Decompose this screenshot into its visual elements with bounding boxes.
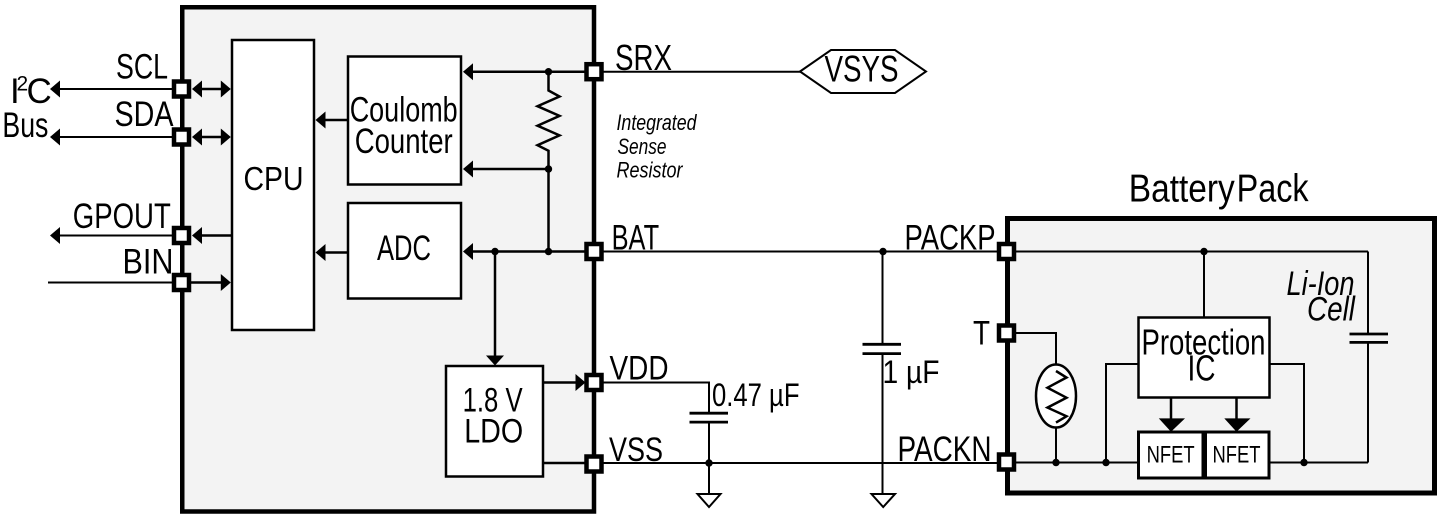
- svg-text:IC: IC: [1188, 348, 1216, 389]
- wire SDA external: [58, 136, 174, 138]
- pin PACKN: [999, 455, 1014, 470]
- net flag VSYS: [800, 50, 926, 93]
- node junction 1uF: [879, 248, 886, 255]
- resistor R-sense zigzag: [538, 72, 560, 169]
- svg-text:CPU: CPU: [244, 160, 304, 197]
- wire thermistor to PACKN: [1055, 427, 1057, 463]
- capacitor C2 0.47uF: [690, 412, 729, 415]
- NFET Q1 block: [1139, 432, 1204, 478]
- pin VSS: [587, 457, 602, 472]
- wire SDA internal bidirectional: [198, 136, 224, 139]
- Coulomb Counter block: [348, 57, 461, 185]
- wire ADC to CPU: [325, 251, 347, 254]
- svg-text:Resistor: Resistor: [617, 158, 684, 183]
- svg-text:VSYS: VSYS: [825, 49, 899, 90]
- wire Coulomb Counter to CPU: [325, 119, 347, 122]
- pin BAT: [587, 244, 602, 259]
- svg-text:PACKN: PACKN: [898, 430, 992, 469]
- pin PACKP: [999, 244, 1014, 259]
- wire BAT pin to ADC: [472, 250, 586, 253]
- capacitor C1 1uF: [882, 252, 884, 344]
- svg-text:ADC: ADC: [377, 229, 431, 268]
- svg-text:SDA: SDA: [115, 95, 175, 134]
- wire Protection IC right down: [1270, 364, 1304, 463]
- svg-text:Cell: Cell: [1307, 290, 1356, 328]
- node junction VSS/cap: [705, 459, 712, 466]
- wire Protection IC left to PACKN: [1106, 364, 1138, 463]
- wire VSS to PACKN: [602, 462, 1000, 464]
- 1.8V LDO block: [446, 366, 543, 477]
- NFET Q2 block: [1206, 432, 1270, 478]
- svg-text:PACKP: PACKP: [905, 219, 996, 258]
- wire LDO to VDD pin: [544, 381, 578, 384]
- wire down to Protection IC: [1203, 252, 1205, 318]
- wire GPOUT internal: [198, 234, 232, 237]
- svg-text:Battery: Battery: [1129, 167, 1235, 210]
- svg-text:Integrated: Integrated: [617, 110, 698, 135]
- wire T pin to thermistor: [1013, 333, 1056, 365]
- wire LDO to VSS pin: [544, 462, 586, 465]
- node junction on SRX wire: [545, 68, 552, 75]
- wire BIN internal: [191, 281, 224, 284]
- wire SRX to VSYS: [602, 71, 801, 73]
- wire VDD to cap: [602, 383, 709, 413]
- wire SCL internal bidirectional: [198, 88, 224, 91]
- pin SCL: [174, 82, 189, 97]
- pin T: [999, 326, 1014, 341]
- svg-text:GPOUT: GPOUT: [73, 197, 171, 236]
- arrow Protection IC to NFET Q1: [1170, 399, 1173, 420]
- fuel-gauge IC outline U1: [182, 7, 594, 511]
- node junction to LDO branch: [491, 248, 498, 255]
- svg-text:1 µF: 1 µF: [883, 354, 940, 390]
- pin GPOUT: [174, 228, 189, 243]
- wire BIN external: [48, 282, 174, 284]
- pin SRX: [587, 64, 602, 79]
- wire PACKN internal: [1013, 462, 1138, 464]
- node junction below resistor: [545, 165, 552, 172]
- svg-text:0.47 µF: 0.47 µF: [712, 377, 800, 413]
- wire SRX pin to Coulomb Counter top: [472, 70, 586, 73]
- svg-text:Bus: Bus: [2, 106, 48, 145]
- svg-text:LDO: LDO: [464, 412, 523, 450]
- battery pack outline: [1008, 219, 1435, 494]
- svg-text:Counter: Counter: [355, 122, 453, 161]
- svg-text:BIN: BIN: [123, 243, 174, 282]
- wire resistor bottom to Coulomb Counter: [472, 168, 549, 171]
- wire SCL external: [58, 88, 174, 90]
- svg-text:NFET: NFET: [1147, 441, 1195, 468]
- ground below 0.47uF: [698, 494, 721, 507]
- wire PACKP internal: [1013, 251, 1368, 253]
- wire resistor node down to BAT wire: [547, 169, 550, 252]
- Li-Ion cell B1: [1367, 252, 1369, 334]
- ground below 1uF: [872, 494, 896, 507]
- svg-text:Pack: Pack: [1237, 167, 1309, 210]
- pin VDD: [587, 375, 602, 390]
- CPU block: [232, 40, 314, 330]
- wire GPOUT external: [58, 235, 174, 237]
- node junction protection ic top: [1200, 248, 1207, 255]
- thermistor RT1: [1036, 365, 1076, 428]
- svg-text:SCL: SCL: [116, 48, 168, 87]
- svg-text:T: T: [973, 315, 990, 353]
- wire down to LDO: [494, 252, 497, 357]
- pin BIN: [174, 275, 189, 290]
- svg-text:Sense: Sense: [618, 134, 667, 159]
- Protection IC block: [1139, 318, 1270, 398]
- wire BAT to PACKP: [602, 251, 1000, 253]
- pin SDA: [174, 130, 189, 145]
- ADC block: [348, 203, 461, 299]
- svg-text:NFET: NFET: [1213, 441, 1261, 468]
- arrow Protection IC to NFET Q2: [1235, 399, 1238, 420]
